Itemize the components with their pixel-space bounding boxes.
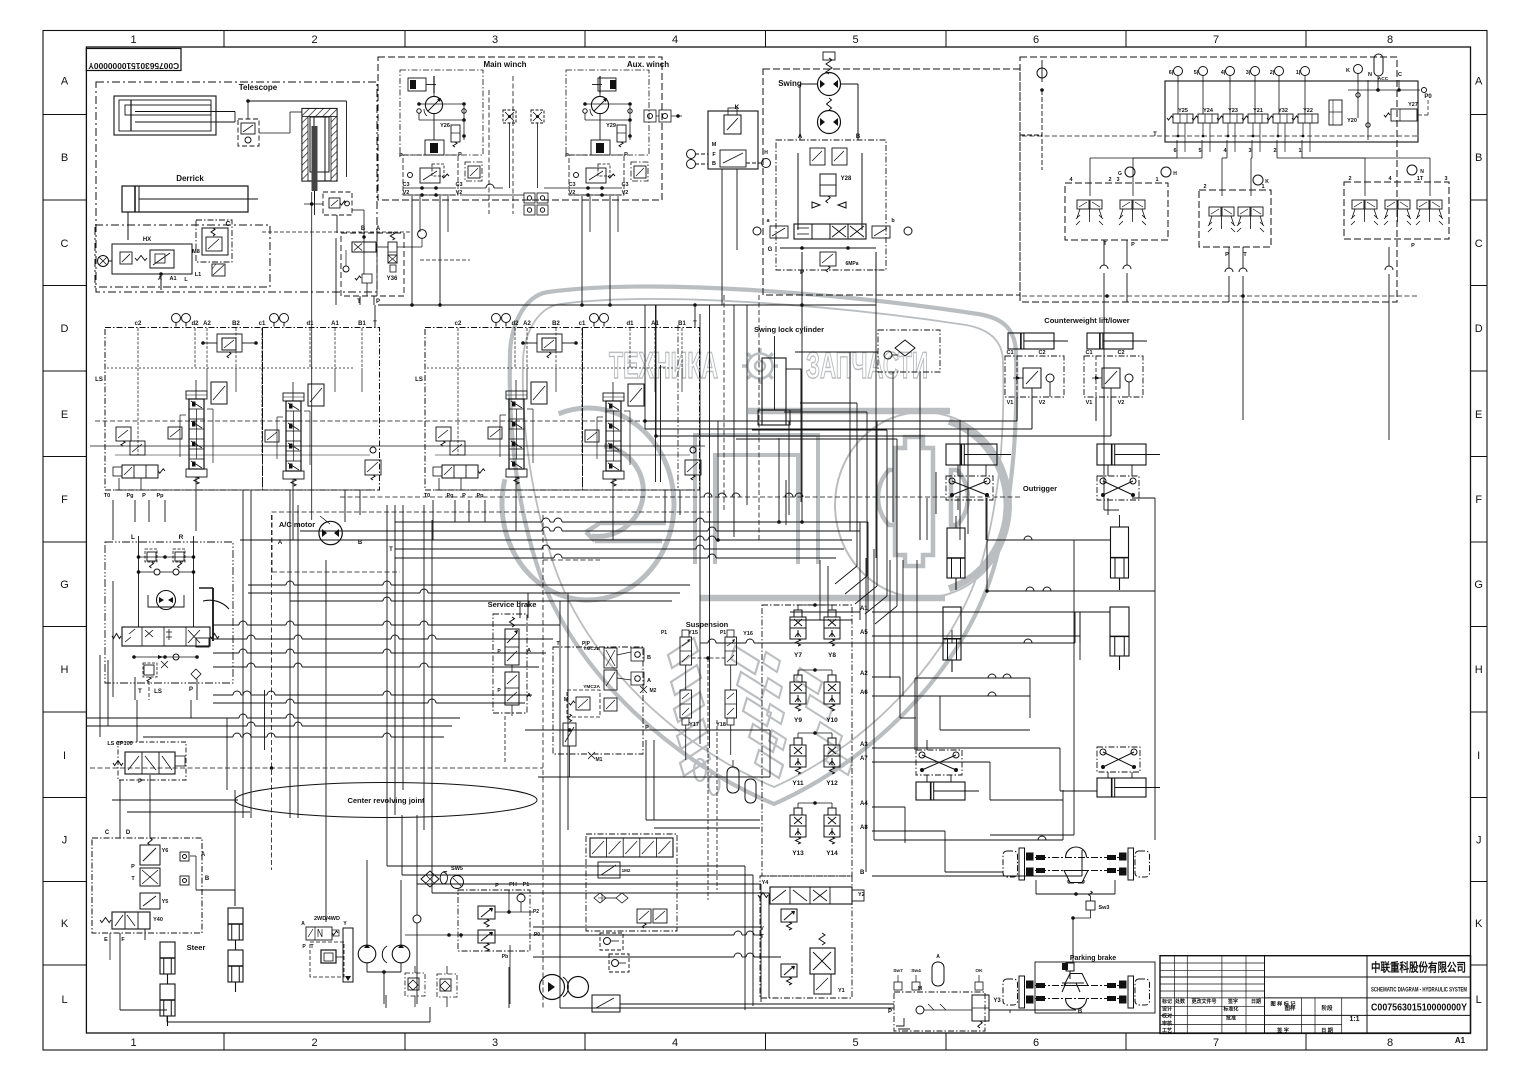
svg-text:Pp: Pp [476,493,484,499]
main bus D [86,714,543,812]
svg-text:M: M [918,986,922,992]
svg-text:A: A [61,76,69,88]
svg-text:P: P [399,153,403,159]
svg-text:P: P [462,493,466,499]
svg-text:A: A [798,134,803,140]
svg-text:中联重科股份有限公司: 中联重科股份有限公司 [1371,960,1466,975]
derrick cylinder [122,174,258,240]
carrier staircase bundle [326,560,769,1010]
svg-text:L: L [61,994,67,1006]
svg-text:P: P [624,152,628,158]
svg-text:Y29: Y29 [606,123,616,129]
svg-text:P: P [1131,242,1135,248]
pilot console [1022,54,1432,298]
svg-text:J: J [1476,835,1482,847]
svg-text:Y16: Y16 [743,631,753,637]
svg-text:标记: 标记 [1161,998,1172,1005]
watermark wheat [668,638,852,795]
svg-text:OK: OK [975,968,983,974]
svg-text:LS: LS [95,377,103,383]
svg-text:B2: B2 [552,321,560,327]
svg-text:Y12: Y12 [826,780,838,787]
svg-text:Y3: Y3 [993,998,1001,1004]
suspension lower enclosure [760,876,852,998]
svg-text:Swing: Swing [778,79,802,88]
svg-text:Y25: Y25 [1178,108,1188,114]
pilot manifold 1 [1065,167,1177,248]
svg-text:M: M [564,697,568,703]
svg-text:7: 7 [1213,34,1219,46]
svg-text:K: K [1475,918,1483,930]
vertical bundles left [243,490,432,830]
svg-text:B1: B1 [358,321,366,327]
steer valve block [92,830,210,952]
svg-text:H: H [1173,171,1177,177]
svg-text:1: 1 [130,34,136,46]
svg-text:P1: P1 [523,882,530,888]
suspension solenoid bank [762,603,868,876]
suspension Y4 Y2 valve [758,880,865,904]
filter cooler symbols [413,866,464,1004]
svg-text:B: B [860,870,865,876]
svg-text:Y28: Y28 [841,176,852,182]
svg-text:I: I [1477,750,1480,762]
svg-text:Y20: Y20 [1347,118,1357,124]
swing motor [798,52,861,140]
swing directional valve [753,218,912,295]
watermark letter F [835,412,1011,598]
svg-text:A2: A2 [203,321,211,327]
svg-text:处数: 处数 [1174,998,1186,1005]
svg-text:3: 3 [492,34,498,46]
pressure reducing valve [304,192,364,233]
svg-text:N: N [1420,169,1424,175]
svg-text:B2: B2 [232,321,240,327]
AC motor [278,516,393,553]
svg-text:4|: 4| [1221,70,1226,76]
svg-text:d1: d1 [626,321,634,327]
brake charge block [405,882,540,1004]
svg-text:V1: V1 [1086,400,1093,406]
svg-text:Sw7: Sw7 [893,968,903,974]
counterweight label [1044,316,1129,325]
valve block Y36 [312,192,427,520]
svg-text:d1: d1 [306,321,314,327]
svg-text:T: T [389,547,393,553]
svg-text:标准化: 标准化 [1222,1006,1238,1013]
svg-text:Y5: Y5 [162,899,169,905]
svg-text:A4: A4 [860,801,868,807]
svg-text:G: G [1474,579,1483,591]
rear axle parking brake [1003,955,1155,1013]
svg-text:Y15: Y15 [688,630,698,636]
LS CP valve [107,741,186,785]
group drop wires [113,490,680,540]
svg-text:A: A [936,954,940,960]
svg-text:D: D [1475,323,1483,335]
svg-text:F: F [61,494,68,506]
svg-text:Y11: Y11 [792,780,804,787]
svg-text:A: A [1475,76,1483,88]
brake shuttle block K [687,104,771,169]
right feeders [920,330,1389,835]
svg-text:J: J [62,835,68,847]
service brake valve [488,600,537,764]
aux winch ports [644,110,682,122]
svg-text:A: A [527,693,531,699]
svg-text:T0: T0 [104,493,110,499]
extra verticals [100,593,760,930]
suspension Y1 valve [810,933,845,994]
svg-text:ACC: ACC [1378,76,1389,82]
pump control valve [112,581,219,700]
svg-text:4: 4 [672,1037,678,1049]
svg-text:1: 1 [1261,184,1264,190]
svg-text:K: K [1265,179,1269,185]
svg-text:6|: 6| [1169,70,1174,76]
pump block HX [95,225,270,290]
T risers [373,305,697,328]
svg-text:Parking brake: Parking brake [1070,955,1116,962]
svg-text:A: A [647,678,651,684]
svg-text:批准: 批准 [1226,1015,1236,1022]
svg-text:Pb: Pb [502,954,508,960]
svg-text:A6: A6 [860,690,868,696]
svg-text:A1: A1 [860,606,868,612]
svg-text:B: B [358,540,363,546]
svg-text:3: 3 [1248,148,1251,154]
svg-text:1: 1 [1155,177,1158,183]
counterweight piping [643,305,1111,438]
svg-text:Y26: Y26 [440,123,450,129]
winch gauge ports [524,193,548,215]
svg-text:Swing lock cylinder: Swing lock cylinder [754,325,824,334]
svg-text:T: T [310,944,313,950]
svg-text:ЗАПЧАСТИ: ЗАПЧАСТИ [806,345,928,386]
svg-text:A1: A1 [1455,1036,1466,1045]
svg-text:2: 2 [311,1037,317,1049]
svg-text:R: R [179,534,184,541]
svg-text:D: D [61,323,69,335]
svg-text:C1: C1 [1085,350,1092,356]
winch risers [262,169,860,620]
telescope cylinder [114,96,347,177]
swing enclosure [763,69,1020,295]
svg-text:A: A [301,921,305,927]
svg-text:8: 8 [1387,1037,1393,1049]
svg-text:B: B [712,161,716,167]
outrigger BR [1097,747,1160,797]
pilot valve C [196,220,232,276]
svg-text:c1: c1 [259,321,266,327]
svg-text:Y23: Y23 [1228,108,1238,114]
svg-text:5: 5 [852,1037,858,1049]
svg-text:6MPa: 6MPa [845,261,858,267]
svg-text:M: M [712,142,717,148]
svg-text:1T: 1T [1417,176,1424,182]
svg-text:C2: C2 [1117,350,1124,356]
svg-text:T: T [459,934,462,940]
svg-text:d2: d2 [511,321,519,327]
svg-text:P: P [376,299,380,305]
svg-text:E: E [104,937,108,943]
vertical bundles center [656,295,877,748]
suspension reliefs [760,909,797,985]
svg-text:C2: C2 [1038,350,1045,356]
suspension port lines [872,612,1082,876]
svg-text:Y1: Y1 [838,988,845,994]
svg-text:1: 1 [130,1037,136,1049]
main bus A [240,518,868,558]
bottom feeders [167,927,894,1022]
svg-text:G: G [60,579,69,591]
right trunk wires [700,421,960,872]
svg-text:C3: C3 [455,182,462,188]
svg-text:1M2: 1M2 [622,868,631,873]
svg-text:A8: A8 [860,825,868,831]
svg-text:阶段: 阶段 [1321,1004,1333,1012]
outrigger cyl ML [943,516,965,672]
svg-text:Sw4: Sw4 [911,968,921,974]
svg-text:C: C [1398,72,1402,78]
svg-text:Suspension: Suspension [686,620,729,629]
svg-text:HX: HX [143,237,151,243]
svg-text:Y27: Y27 [1408,102,1418,108]
telescope enclosure [96,82,377,292]
svg-text:3: 3 [1116,177,1119,183]
svg-text:P: P [565,153,569,159]
svg-text:SCHEMATIC DIAGRAM - HYDRAULIC: SCHEMATIC DIAGRAM - HYDRAULIC SYSTEM [1371,987,1467,994]
telescope balance valve [238,112,302,146]
main pump group [105,534,233,683]
svg-text:A2: A2 [860,671,868,677]
svg-text:Pp: Pp [156,493,164,499]
main winch [399,70,483,197]
svg-text:5: 5 [852,34,858,46]
svg-text:B: B [361,226,366,232]
svg-text:T: T [1153,132,1157,138]
svg-text:Y9: Y9 [794,717,802,724]
center revolving joint [235,783,537,818]
left feeders [120,700,235,906]
winch enclosures [378,57,669,200]
pilot manifold 3 [1344,165,1449,249]
svg-text:P: P [1411,243,1415,249]
svg-text:C3: C3 [621,182,628,188]
svg-text:3|: 3| [1246,70,1251,76]
bottom suspension manifold [586,834,677,931]
svg-text:T0: T0 [424,493,430,499]
svg-text:Y6: Y6 [162,848,169,854]
inter-winch links [460,76,568,214]
svg-text:A2: A2 [523,321,531,327]
svg-text:SW5: SW5 [451,866,463,872]
svg-text:LS: LS [415,377,423,383]
svg-text:L: L [1476,994,1482,1006]
svg-text:Y13: Y13 [792,850,804,857]
main valve group 1 [95,314,381,500]
svg-text:B: B [856,134,861,140]
watermark shield [510,287,1017,804]
watermark gear [742,348,778,384]
svg-text:2|: 2| [1270,70,1275,76]
svg-text:Y10: Y10 [826,717,838,724]
svg-text:Sw3: Sw3 [1098,905,1109,911]
svg-text:Y22: Y22 [1303,108,1313,114]
svg-text:H: H [764,150,768,156]
svg-text:c1: c1 [579,321,586,327]
svg-text:I: I [63,750,66,762]
svg-text:T: T [357,299,361,305]
telescope vertical cylinder [302,109,337,200]
axle feed lines [1009,1010,1011,1013]
long pilot lines [90,295,1020,1008]
svg-text:8: 8 [1387,34,1393,46]
suspension to outrigger links [900,612,1097,872]
aux winch [565,70,649,197]
svg-text:V1: V1 [1007,400,1014,406]
drawing number box [86,49,181,72]
accumulators [727,760,756,803]
outrigger label [1023,484,1057,493]
svg-text:E: E [1475,409,1482,421]
Y3 parking pilot block [888,954,1083,1031]
svg-text:设计: 设计 [1162,1006,1172,1013]
svg-text:G: G [768,247,773,253]
svg-text:C1: C1 [1006,350,1013,356]
svg-text:图 样 标 记: 图 样 标 记 [1270,1000,1296,1008]
svg-text:V2: V2 [1118,400,1125,406]
svg-text:B: B [647,655,651,661]
svg-text:6: 6 [1033,1037,1039,1049]
svg-text:P1: P1 [661,630,667,636]
swing lock cylinder [754,325,824,525]
svg-text:C00756301510000000Y: C00756301510000000Y [1371,1002,1467,1014]
svg-text:LS: LS [154,689,162,695]
svg-text:K: K [61,918,69,930]
svg-text:工艺: 工艺 [1162,1027,1172,1034]
loopback bundle [736,403,936,624]
pilot manifold 2 [1199,175,1271,258]
svg-text:d2: d2 [191,321,199,327]
svg-text:A1: A1 [331,321,339,327]
svg-text:Center revolving joint: Center revolving joint [347,796,425,805]
svg-text:3: 3 [492,1037,498,1049]
swing brake valves [776,140,886,270]
svg-text:Y14: Y14 [826,850,838,857]
svg-text:Y7: Y7 [794,652,802,659]
main valve group 2 [415,314,701,500]
main bus C [213,621,560,703]
svg-text:Outrigger: Outrigger [1023,484,1057,493]
svg-text:B: B [1475,152,1482,164]
svg-text:审核: 审核 [1162,1020,1172,1027]
svg-text:A1: A1 [169,276,176,282]
svg-text:P2: P2 [533,909,539,915]
svg-text:5: 5 [1198,148,1201,154]
svg-text:Y24: Y24 [1203,108,1214,114]
svg-text:V2: V2 [1039,400,1046,406]
svg-text:Y18: Y18 [716,722,726,728]
svg-text:Telescope: Telescope [239,83,278,92]
pilot console wiring [1020,60,1430,335]
outrigger TR [1097,444,1160,500]
svg-text:Main winch: Main winch [483,60,526,69]
svg-text:Y36: Y36 [387,276,398,282]
svg-text:Y32: Y32 [1278,108,1288,114]
svg-text:C: C [1475,238,1483,250]
svg-text:A: A [376,226,381,232]
svg-text:E: E [61,409,68,421]
svg-text:YMC2B: YMC2B [583,646,600,652]
svg-text:2: 2 [1203,184,1206,190]
svg-text:签字: 签字 [1227,998,1238,1005]
svg-text:F: F [1475,494,1482,506]
suction strainers [405,966,457,1007]
svg-text:A/C motor: A/C motor [279,520,315,529]
svg-text:1|: 1| [1296,70,1301,76]
svg-text:L1: L1 [195,272,201,278]
svg-text:P: P [131,864,135,870]
svg-text:P: P [189,687,193,693]
svg-text:4: 4 [672,34,678,46]
svg-text:1: 1 [1298,148,1301,154]
svg-text:Counterweight lift/lower: Counterweight lift/lower [1044,316,1129,325]
svg-text:C: C [225,221,230,228]
svg-text:N: N [1368,72,1372,78]
svg-text:C3: C3 [568,182,575,188]
svg-text:5|: 5| [1194,70,1199,76]
svg-text:A5: A5 [860,630,868,636]
title block [1160,956,1471,1045]
outrigger cyl MR [1110,515,1129,670]
svg-text:C3: C3 [402,182,409,188]
svg-text:C: C [105,830,110,836]
svg-text:D: D [126,830,131,836]
svg-text:6: 6 [1033,34,1039,46]
svg-text:校对: 校对 [1162,1013,1172,1020]
svg-text:P: P [142,493,146,499]
svg-text:B: B [61,152,68,164]
svg-text:C00756301510000000Y: C00756301510000000Y [88,61,179,71]
svg-text:L: L [131,534,135,541]
svg-text:ТЕХНИКА: ТЕХНИКА [609,345,718,386]
svg-text:Y4: Y4 [762,880,770,886]
svg-text:日 期: 日 期 [1321,1026,1333,1034]
svg-text:6: 6 [1173,148,1176,154]
svg-text:更改文件号: 更改文件号 [1191,998,1216,1005]
svg-text:A7: A7 [860,756,868,762]
svg-text:YMC2A: YMC2A [583,684,600,690]
watermark letter E [502,408,674,600]
svg-text:Y2: Y2 [858,892,865,898]
svg-text:2WD/4WD: 2WD/4WD [314,916,340,922]
cooler pumps [540,975,621,1013]
svg-text:B1: B1 [678,321,686,327]
svg-text:2: 2 [1348,176,1351,182]
suspension Y15 Y16 valves [661,620,753,900]
svg-text:V2: V2 [622,190,629,196]
outrigger TL [946,444,1011,500]
svg-text:Pg: Pg [126,493,133,499]
svg-text:2: 2 [1273,148,1276,154]
pilot console enclosure [1020,57,1397,302]
svg-text:P1: P1 [720,630,726,636]
svg-text:A: A [201,852,206,858]
brake relief M1 [0,0,1,1]
svg-text:Y21: Y21 [1253,108,1263,114]
Sw3 sensor [1071,891,1109,962]
